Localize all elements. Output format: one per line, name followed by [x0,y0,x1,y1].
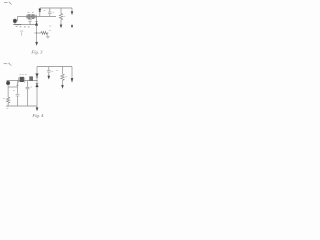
capacitor C5 to ground [47,33,49,36]
label 12 [44,10,46,12]
capacitor C1 plate (series on mid rail) [26,15,28,18]
handwritten reference numeral with leader (top-left) [4,2,8,4]
label 16 [64,15,66,17]
arrow terminal (below R3) [61,85,63,88]
wire bottom rail [6,105,37,107]
resistor R2 (horizontal) [41,31,47,34]
wire emitter line [9,86,18,88]
junction tick on dropper [16,84,19,86]
wire corner down (right) [71,67,73,79]
label under bottom rail left [6,107,8,109]
component box on mid rail [30,77,33,81]
arrow terminal (figure bottom) [36,42,38,45]
resistor R4 (vertical, to bottom rail) [6,97,9,106]
resistor R1 (shunt from top rail) [60,8,62,13]
wire bottom rail [13,24,37,26]
label 98 (left of R4) [3,97,5,99]
node junction mid rail / diode chain [36,80,37,81]
wire main rail (mid) [18,16,57,18]
reference numerals under bottom rail [16,26,30,28]
arrow terminal (below R1) [60,25,62,28]
crystal Y3: left plate [18,77,20,82]
label 18 [53,11,55,13]
wire down to arrow [36,33,38,42]
node junction [36,33,37,34]
svg-text:Fig. 3: Fig. 3 [30,50,43,55]
wire top rail [37,66,72,68]
label 94 [65,76,67,78]
diode D1 (filled, on vertical link) [39,9,41,12]
transistor Q2 [6,81,10,85]
diode D3 (filled, points down) [36,74,39,77]
arrow terminal (right) [71,78,73,82]
arrow terminal (below C6) [48,76,50,79]
arrow terminal (figure bottom) [36,108,38,111]
wire mid rail down to diode D2 [36,17,38,22]
label 96 [52,70,54,72]
label 50 [49,25,51,27]
label 54 [49,29,51,31]
svg-text:Fig. 4: Fig. 4 [31,113,44,118]
wire horizontal at output node [37,32,42,34]
arrow terminal (right) [71,12,73,15]
capacitor C7 (dropper at x=17.5) [17,81,19,95]
wire emitter to bottom rail [14,23,16,25]
crystal Y2 box [32,15,35,19]
capacitor C2 plates (series on mid rail) [35,15,36,18]
capacitor C3 (shunt, top rail to mid rail) [49,8,51,12]
crystal Y1 box [28,15,31,19]
label 92 [13,90,15,92]
transistor Q1 [13,19,17,23]
ground squiggle mark [20,30,23,33]
resistor R3 (shunt from top rail) [62,67,64,75]
wire stub below bottom rail [36,106,38,108]
label 88 (under top rail) [56,70,58,72]
capacitor C4 (shunt, mid rail to bottom rail) [29,17,31,20]
diode D4 (filled, points up) [36,84,39,87]
wire emitter down [7,85,9,97]
crystal Y3 box [20,77,24,82]
wire left corner down to transistor Q1 [17,17,19,22]
label 90 [30,86,32,88]
reference numeral (right, below arrow) [71,25,73,28]
wire stub left of node [34,32,36,34]
wire diode node down [36,26,38,34]
wire vertical link mid rail to top rail [39,8,41,17]
value label above crystals [28,11,34,13]
handwritten reference numeral with leader [4,63,8,65]
diode D2 (filled, points up, at bottom rail) [35,21,37,23]
wire diode chain vertical [36,67,38,107]
capacitor C6 (shunt from top rail) [48,67,50,71]
label above crystal [20,73,27,75]
capacitor C8 (dropper at x=27.5) [27,81,29,88]
wire top rail right corner down [71,8,73,12]
crystal Y3: right plate [24,77,26,82]
wire top rail [40,7,72,9]
wire mid rail [7,80,38,82]
